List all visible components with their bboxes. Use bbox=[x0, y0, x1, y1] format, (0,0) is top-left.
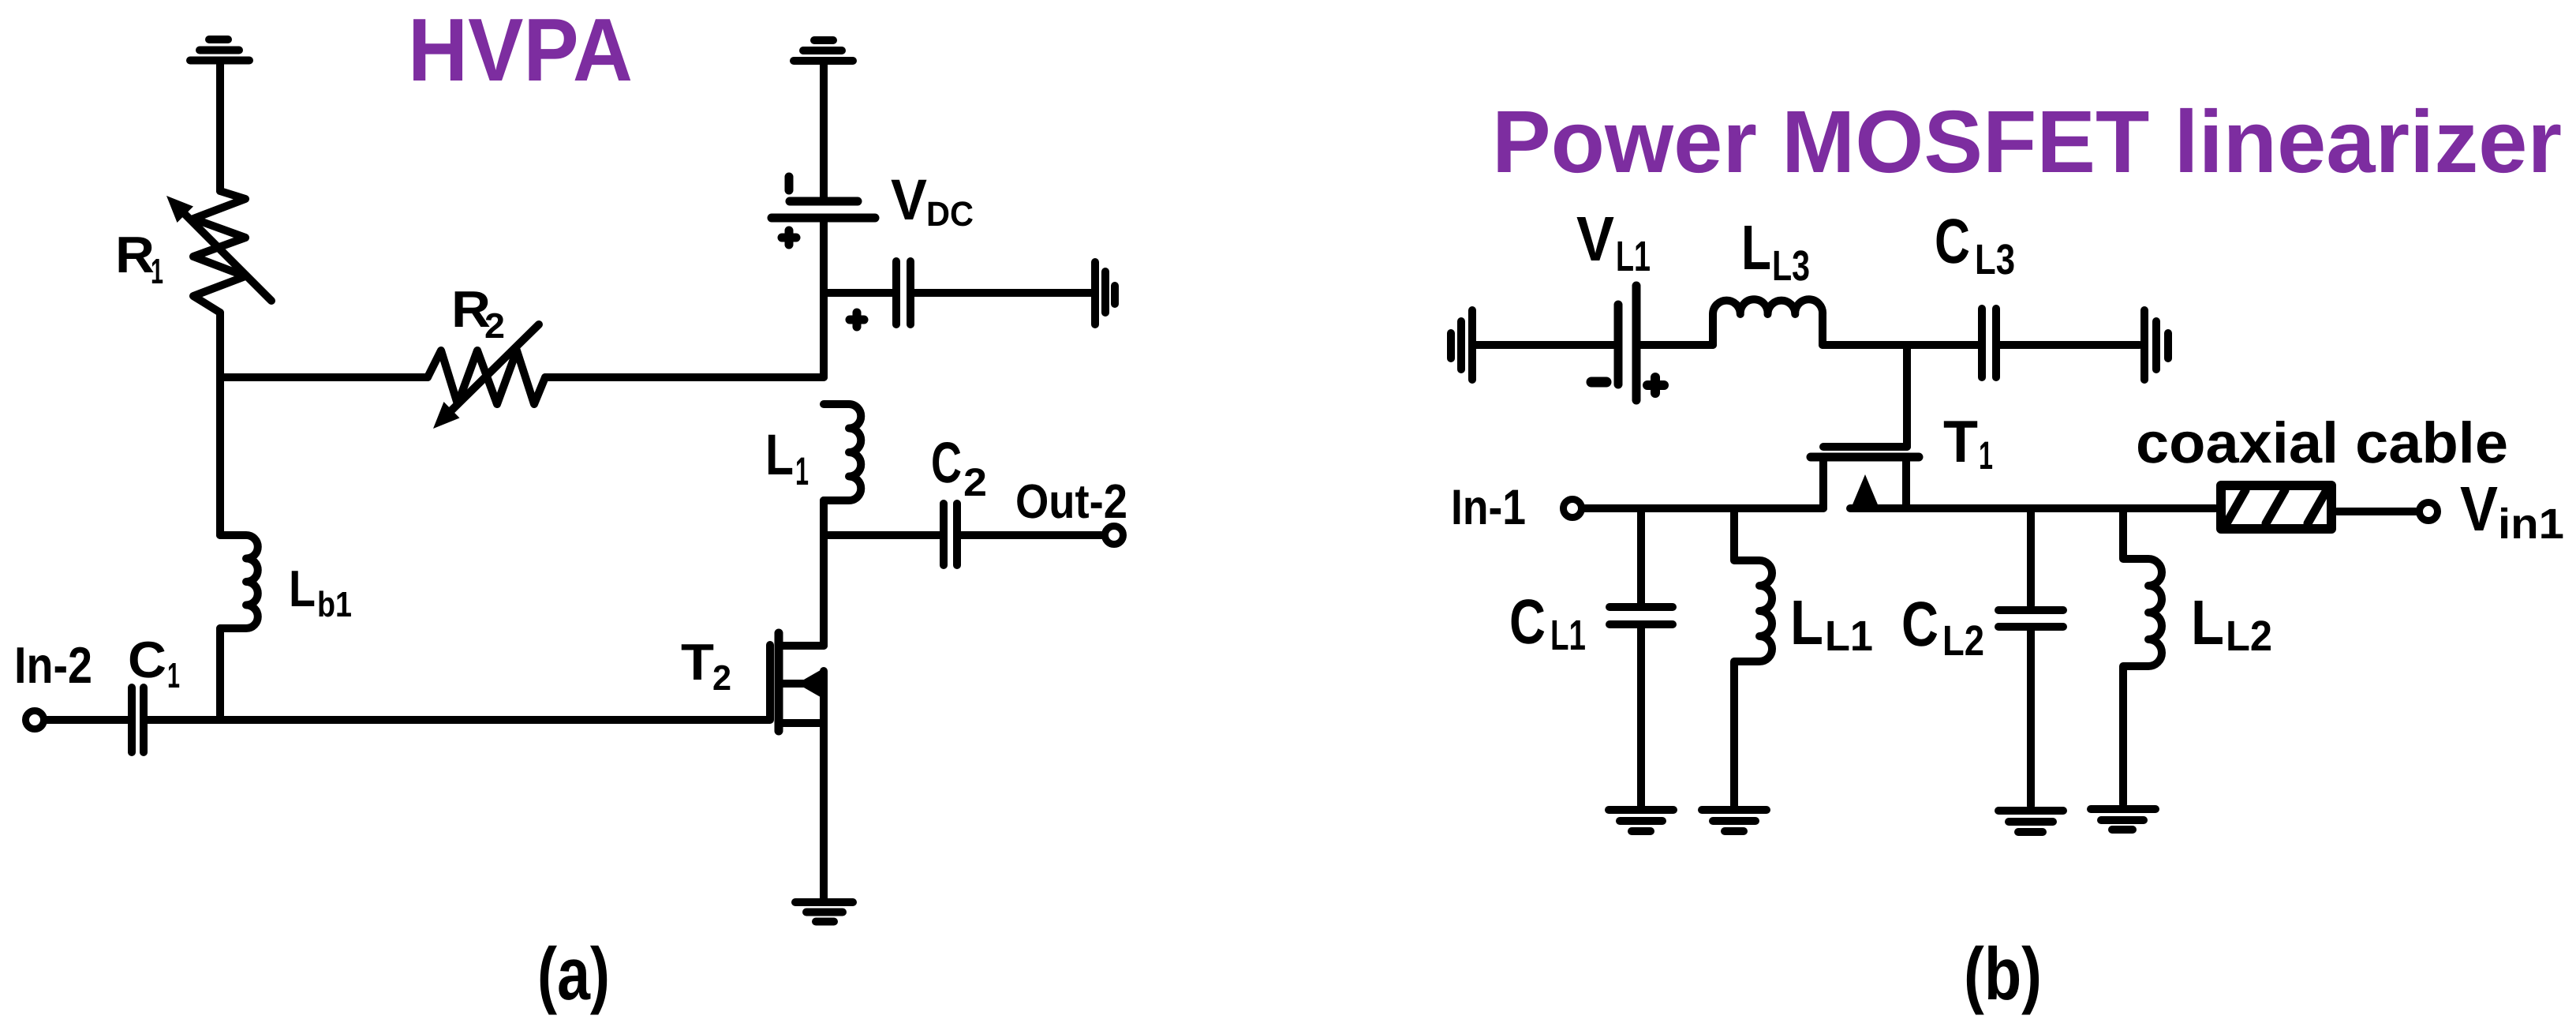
svg-text:In-2: In-2 bbox=[14, 636, 92, 694]
transistor T1 channel bar bbox=[1811, 453, 1919, 462]
svg-text:V: V bbox=[2460, 474, 2498, 544]
label LL1 bbox=[1790, 587, 1873, 660]
wire In-1 to T1 left tap bbox=[1583, 504, 1823, 512]
arrow of variable resistor R2 bbox=[433, 324, 539, 429]
svg-text:L: L bbox=[2191, 587, 2224, 658]
wire Lb1 to input line bbox=[216, 628, 224, 720]
svg-text:L2: L2 bbox=[1942, 617, 1984, 665]
svg-text:1: 1 bbox=[151, 251, 163, 291]
svg-text:L3: L3 bbox=[1772, 242, 1810, 290]
transistor T1 gate bar bbox=[1823, 443, 1907, 451]
transistor T2 channel bar bbox=[775, 633, 783, 731]
svg-text:(a): (a) bbox=[537, 932, 610, 1015]
svg-text:L3: L3 bbox=[1975, 236, 2015, 283]
inductor Lb1 bbox=[220, 535, 258, 628]
label VDC bbox=[891, 168, 974, 234]
wire C1 to T2 gate bbox=[144, 645, 770, 720]
svg-text:in1: in1 bbox=[2498, 500, 2564, 548]
inductor LL2 branch bbox=[2123, 508, 2162, 804]
capacitor CL2 branch wire bbox=[2027, 508, 2035, 605]
battery VDC bbox=[772, 177, 875, 245]
transistor T2 drain tap bbox=[783, 642, 824, 650]
svg-text:V: V bbox=[1576, 204, 1614, 274]
transistor T2 source tap bbox=[783, 719, 824, 727]
inductor LL1 branch bbox=[1734, 508, 1772, 806]
capacitor C2 bbox=[944, 504, 957, 565]
svg-text:T: T bbox=[1943, 408, 1978, 474]
svg-text:L: L bbox=[1741, 212, 1771, 283]
wire coax to Vin1 bbox=[2337, 508, 2417, 515]
transistor T1 left tap bbox=[1819, 461, 1827, 508]
coaxial cable symbol bbox=[2221, 485, 2331, 529]
wire node to C2 bbox=[824, 531, 940, 539]
transistor T1 right tap bbox=[1902, 461, 1910, 508]
wire ground to VDC battery bbox=[820, 65, 828, 197]
label T2 bbox=[681, 633, 731, 698]
terminal In-2 bbox=[26, 711, 44, 729]
wire T1 right side to coax bbox=[1850, 504, 2215, 512]
svg-text:C: C bbox=[1509, 586, 1546, 657]
label Vin1 bbox=[2460, 474, 2564, 548]
svg-text:L: L bbox=[289, 560, 316, 617]
label R2 bbox=[451, 280, 505, 346]
svg-text:DC: DC bbox=[926, 195, 974, 234]
svg-text:C: C bbox=[1901, 589, 1939, 659]
arrow of variable resistor R1 bbox=[166, 196, 271, 301]
svg-text:b1: b1 bbox=[317, 584, 352, 624]
inductor LL3 bbox=[1713, 299, 1823, 345]
wire L1 to output node bbox=[820, 500, 828, 535]
capacitor CL1 branch wire bbox=[1637, 508, 1645, 603]
svg-text:C: C bbox=[1935, 206, 1970, 276]
wire C2 to Out-2 bbox=[957, 531, 1103, 539]
svg-text:1: 1 bbox=[1979, 433, 1993, 478]
ground (left of VL1) bbox=[1451, 310, 1472, 380]
wire R2 to VDC rail bbox=[545, 373, 824, 381]
label Lb1 bbox=[289, 560, 352, 624]
svg-text:1: 1 bbox=[795, 449, 809, 493]
wire In-2 to C1 bbox=[44, 716, 128, 724]
label LL2 bbox=[2191, 587, 2272, 660]
wire node down to T1 gate bbox=[1903, 345, 1911, 447]
svg-text:2: 2 bbox=[712, 658, 731, 698]
svg-text:T: T bbox=[681, 633, 714, 691]
capacitor CL1 bbox=[1610, 607, 1673, 624]
ground (top-left of HVPA) bbox=[190, 39, 249, 61]
svg-text:Out-2: Out-2 bbox=[1015, 474, 1127, 528]
wire LL3 to node bbox=[1823, 341, 1978, 349]
ground (top of VDC) bbox=[794, 40, 853, 61]
svg-text:coaxial cable: coaxial cable bbox=[2136, 411, 2508, 475]
bypass capacitor plates bbox=[896, 261, 910, 324]
transistor T2 body tap and arrow bbox=[783, 668, 824, 699]
svg-text:C: C bbox=[931, 431, 962, 495]
wire CL2 to ground bbox=[2027, 627, 2035, 806]
svg-text:L2: L2 bbox=[2226, 613, 2272, 660]
label C1 bbox=[128, 631, 180, 695]
capacitor C1 bbox=[132, 688, 144, 752]
transistor T1 body arrow bbox=[1851, 474, 1879, 508]
label C2 bbox=[931, 431, 987, 504]
svg-text:Power MOSFET linearizer: Power MOSFET linearizer bbox=[1492, 92, 2562, 191]
ground (below T2) bbox=[795, 902, 853, 922]
terminal Out-2 bbox=[1105, 526, 1123, 545]
label CL1 bbox=[1509, 586, 1586, 659]
wire T2 source down to ground bbox=[820, 671, 828, 899]
capacitor CL2 bbox=[1998, 610, 2063, 627]
wire R1 down through node to Lb1 bbox=[216, 313, 224, 535]
wire battery to node bbox=[820, 222, 828, 377]
wire ground to VL1 bbox=[1472, 341, 1614, 349]
svg-text:(b): (b) bbox=[1964, 932, 2042, 1015]
svg-text:L1: L1 bbox=[1550, 612, 1586, 659]
wire capacitor to right ground bbox=[910, 289, 1092, 297]
wire node to bypass capacitor bbox=[824, 289, 892, 297]
svg-text:V: V bbox=[891, 168, 927, 232]
label L1 bbox=[765, 423, 809, 493]
svg-text:2: 2 bbox=[484, 305, 505, 346]
label VL1 bbox=[1576, 204, 1651, 280]
capacitor CL3 bbox=[1982, 309, 1996, 377]
svg-text:L: L bbox=[1790, 587, 1823, 658]
battery VL1 bbox=[1591, 286, 1664, 400]
wire node to R2 bbox=[220, 373, 428, 381]
label CL2 bbox=[1901, 589, 1984, 665]
svg-text:L1: L1 bbox=[1825, 613, 1873, 660]
ground (right of CL3) bbox=[2144, 310, 2168, 380]
wire node down to T2 drain bbox=[820, 535, 828, 646]
svg-text:C: C bbox=[128, 631, 166, 688]
svg-text:R: R bbox=[115, 226, 155, 283]
svg-text:L: L bbox=[765, 423, 794, 487]
svg-text:1: 1 bbox=[167, 655, 180, 695]
ground (right of bypass capacitor) bbox=[1095, 262, 1115, 324]
inductor L1 bbox=[824, 404, 861, 500]
wire CL1 to ground bbox=[1637, 624, 1645, 806]
wire ground to R1 bbox=[216, 64, 224, 191]
wire VL1 to LL3 bbox=[1636, 341, 1713, 349]
label R1 bbox=[115, 226, 163, 291]
terminal In-1 bbox=[1564, 500, 1582, 518]
resistor R2 (variable) bbox=[428, 350, 545, 404]
wire CL3 to right ground bbox=[1996, 341, 2140, 349]
ground (below CL2) bbox=[1998, 811, 2063, 832]
terminal Vin1 bbox=[2420, 503, 2438, 521]
svg-text:In-1: In-1 bbox=[1451, 480, 1526, 535]
label T1 bbox=[1943, 408, 1993, 478]
svg-text:2: 2 bbox=[963, 460, 987, 504]
ground (below LL2) bbox=[2091, 809, 2155, 830]
label CL3 bbox=[1935, 206, 2015, 283]
label LL3 bbox=[1741, 212, 1810, 290]
svg-text:L1: L1 bbox=[1616, 233, 1651, 280]
ground (below CL1) bbox=[1609, 810, 1673, 831]
ground (below LL1) bbox=[1702, 810, 1767, 831]
svg-text:HVPA: HVPA bbox=[408, 0, 633, 99]
resistor R1 (variable) bbox=[193, 191, 245, 313]
plus sign at bypass capacitor bbox=[850, 313, 864, 327]
